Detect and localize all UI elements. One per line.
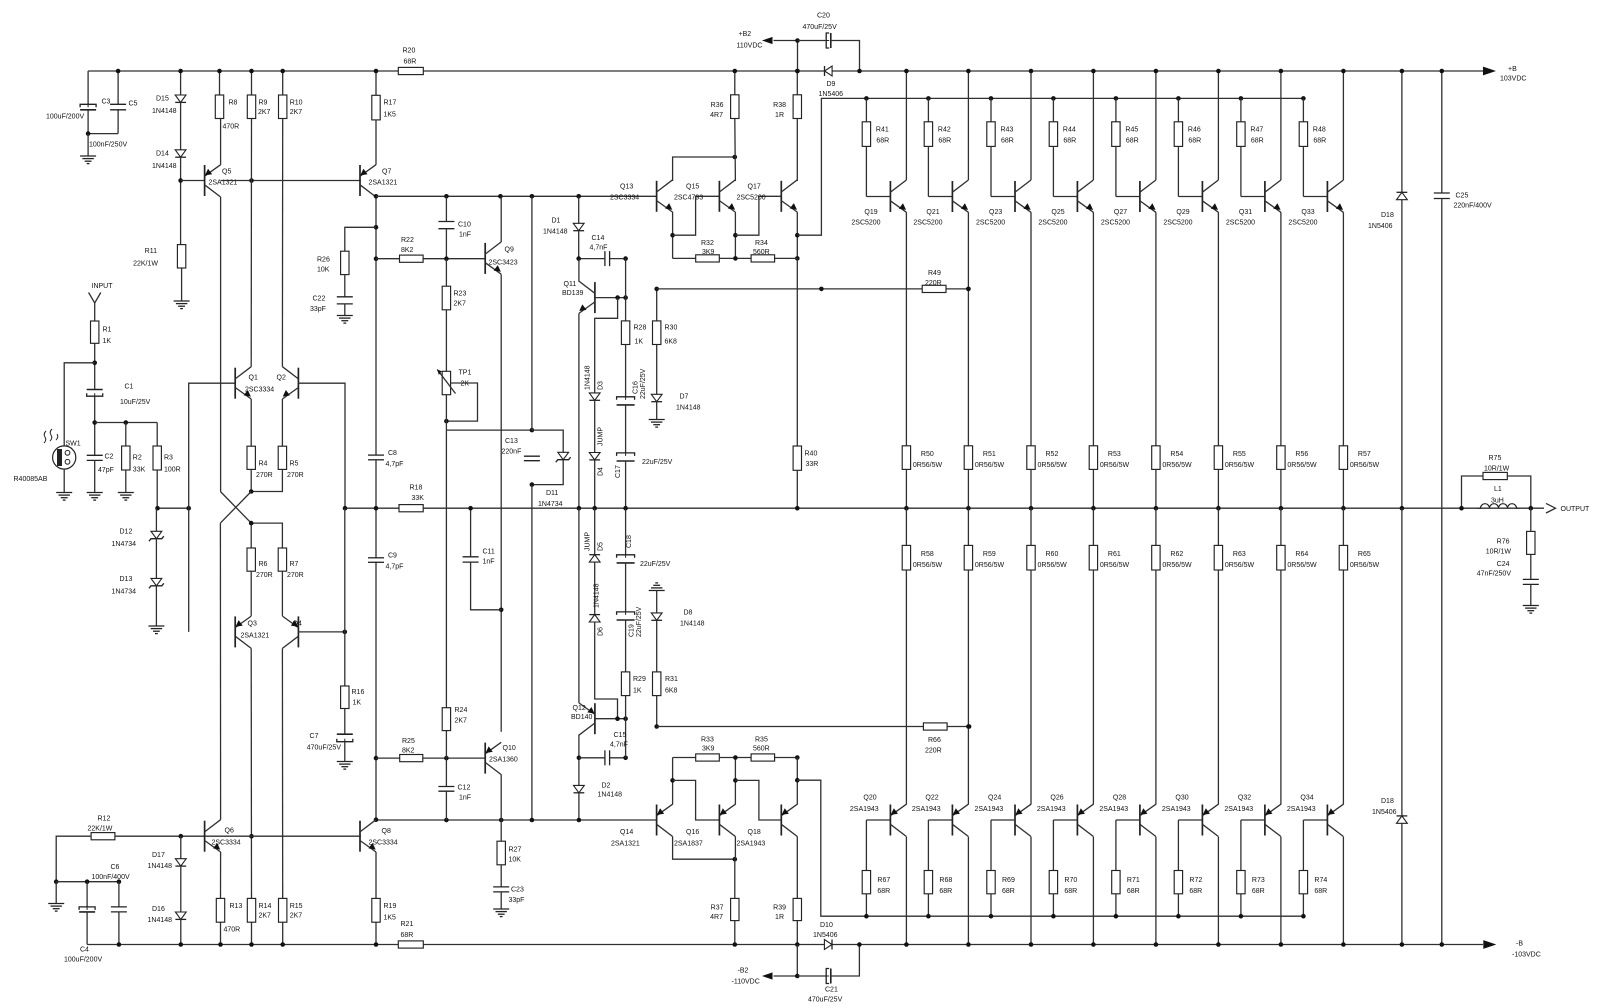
transistor Q23 2SC5200 (1014, 181, 1016, 212)
svg-text:2SC5200: 2SC5200 (976, 220, 1005, 227)
svg-text:22uF/25V: 22uF/25V (640, 561, 671, 568)
svg-text:R54: R54 (1170, 451, 1183, 458)
svg-text:R40: R40 (805, 451, 818, 458)
capacitor C15 4,7nF (606, 750, 610, 765)
transistor Q30 2SA1943 (1201, 805, 1203, 836)
resistor R24 2K7 (442, 708, 450, 731)
svg-text:R3: R3 (164, 455, 173, 462)
svg-text:22K/1W: 22K/1W (88, 826, 113, 833)
ground below D7 (656, 402, 658, 420)
svg-text:2SC5200: 2SC5200 (913, 220, 942, 227)
svg-text:270R: 270R (287, 572, 304, 579)
svg-text:C25: C25 (1456, 193, 1469, 200)
svg-text:TP1: TP1 (459, 370, 472, 377)
svg-text:6K8: 6K8 (665, 688, 678, 695)
transistor Q28 2SA1943 (1139, 805, 1141, 836)
svg-text:68R: 68R (1126, 138, 1139, 145)
svg-text:470uF/25V: 470uF/25V (307, 745, 342, 752)
resistor R10 2K7 (282, 71, 284, 95)
svg-text:R65: R65 (1358, 551, 1371, 558)
svg-text:Q26: Q26 (1050, 794, 1063, 801)
svg-text:1nF: 1nF (459, 795, 471, 802)
svg-text:2SC3423: 2SC3423 (489, 260, 518, 267)
svg-text:68R: 68R (404, 59, 417, 66)
wire Q27 collector (1155, 71, 1157, 180)
svg-text:C17: C17 (615, 465, 622, 478)
svg-text:68R: 68R (401, 932, 414, 939)
wire Q31 emitter to R56 (1280, 212, 1282, 445)
svg-text:68R: 68R (876, 138, 889, 145)
svg-text:2K7: 2K7 (455, 718, 468, 725)
svg-text:C13: C13 (505, 438, 518, 445)
svg-text:R70: R70 (1064, 877, 1077, 884)
svg-text:R15: R15 (290, 903, 303, 910)
wire D2 to lower driver base wire (578, 793, 580, 820)
diode D18 1N5406 top (1401, 71, 1403, 192)
resistor R57 0R56/5W (1339, 446, 1347, 470)
svg-text:C18: C18 (626, 535, 633, 548)
svg-text:R30: R30 (665, 325, 678, 332)
diode D18 1N5406 bottom (1401, 508, 1403, 816)
resistor R50 0R56/5W (902, 446, 910, 470)
svg-text:Q18: Q18 (748, 829, 761, 836)
svg-text:OUTPUT: OUTPUT (1561, 506, 1591, 513)
capacitor C2 47pF (87, 456, 103, 460)
wire R36 to Q15 collector (734, 119, 737, 182)
svg-text:Q12: Q12 (573, 705, 586, 712)
wire Q17 emitter node (796, 212, 798, 258)
svg-text:68R: 68R (939, 888, 952, 895)
resistor R49 220R (922, 285, 946, 292)
svg-text:R53: R53 (1108, 451, 1121, 458)
svg-text:R22: R22 (401, 237, 414, 244)
svg-text:4,7pF: 4,7pF (386, 564, 404, 571)
svg-text:Q13: Q13 (620, 184, 633, 191)
OUTPUT arrow (1546, 503, 1556, 513)
svg-text:1N5406: 1N5406 (1368, 223, 1393, 230)
resistor R53 0R56/5W (1089, 446, 1097, 470)
transistor Q34 2SA1943 (1326, 805, 1328, 836)
svg-text:R71: R71 (1127, 877, 1140, 884)
resistor R18 33K (399, 505, 423, 512)
diode D16 1N4148 (180, 866, 182, 912)
svg-text:1K: 1K (635, 339, 644, 346)
ground below C7 (344, 742, 346, 762)
transistor Q12 BD140 (594, 703, 596, 734)
capacitor C22 33pF (337, 297, 353, 303)
svg-text:R46: R46 (1188, 127, 1201, 134)
wire Q25 collector (1092, 71, 1094, 180)
wire Q6/Q8 base wire (115, 835, 361, 837)
svg-text:Q23: Q23 (989, 209, 1002, 216)
svg-text:1N4148: 1N4148 (598, 792, 623, 799)
svg-text:Q22: Q22 (925, 794, 938, 801)
svg-text:1N4148: 1N4148 (543, 229, 568, 236)
transistor Q5 2SA1321 (204, 165, 206, 196)
wire C15 row (579, 757, 605, 759)
svg-text:Q32: Q32 (1238, 794, 1251, 801)
resistor R25 8K2 (400, 755, 423, 762)
svg-text:68R: 68R (1188, 138, 1201, 145)
power +B2 110VDC arrow (762, 37, 773, 44)
svg-text:2K7: 2K7 (258, 109, 271, 116)
svg-text:R7: R7 (290, 561, 299, 568)
svg-text:Q1: Q1 (249, 375, 258, 382)
svg-text:R43: R43 (1001, 127, 1014, 134)
wire R26 to C22 (344, 275, 346, 297)
wire R9 to Q1 collector (250, 119, 252, 367)
svg-text:68R: 68R (1313, 138, 1326, 145)
resistor R5 270R (278, 446, 286, 469)
svg-text:D15: D15 (156, 96, 169, 103)
svg-text:R57: R57 (1358, 451, 1371, 458)
svg-text:R52: R52 (1046, 451, 1059, 458)
wire D8 to R31 (656, 620, 658, 672)
svg-text:R18: R18 (410, 485, 423, 492)
wire R66 row (657, 726, 969, 728)
resistor R19 1K5 (375, 852, 377, 898)
svg-text:1N4148: 1N4148 (148, 917, 173, 924)
svg-text:C11: C11 (483, 549, 495, 556)
svg-text:C1: C1 (125, 384, 134, 391)
svg-text:103VDC: 103VDC (1500, 75, 1526, 82)
svg-text:R45: R45 (1125, 127, 1138, 134)
ground below C2 (94, 460, 96, 492)
svg-text:INPUT: INPUT (92, 283, 114, 290)
svg-text:2SA1943: 2SA1943 (737, 841, 766, 848)
wire Q13 collector jog to R36 column (673, 157, 735, 181)
svg-text:4R7: 4R7 (710, 112, 723, 119)
wire D6 to Q12 base jog (595, 622, 618, 719)
svg-text:0R56/5W: 0R56/5W (1162, 462, 1192, 469)
svg-text:R11: R11 (145, 248, 157, 255)
svg-text:10R/1W: 10R/1W (1484, 466, 1510, 473)
wire Q24 collector (1030, 837, 1032, 945)
resistor R9 2K7 (251, 71, 253, 95)
wire C18 to C19 (625, 563, 627, 612)
svg-text:C7: C7 (310, 733, 319, 740)
svg-text:68R: 68R (1001, 138, 1014, 145)
svg-text:220nF: 220nF (502, 449, 522, 456)
wire R1 to C1 node (94, 343, 96, 389)
wire D4 to mid rail (594, 460, 596, 508)
transistor Q3 2SA1321 (234, 616, 236, 647)
resistor R27 10K (500, 820, 502, 841)
svg-text:2SC4793: 2SC4793 (674, 195, 703, 202)
svg-text:2K7: 2K7 (290, 913, 303, 920)
svg-text:1N4148: 1N4148 (676, 405, 701, 412)
resistor R64 0R56/5W (1280, 508, 1282, 545)
svg-text:22uF/25V: 22uF/25V (640, 368, 647, 399)
svg-text:1N5406: 1N5406 (819, 91, 844, 98)
svg-text:2SA1321: 2SA1321 (611, 841, 640, 848)
svg-text:22uF/25V: 22uF/25V (636, 606, 643, 637)
svg-text:R48: R48 (1313, 127, 1326, 134)
svg-text:C8: C8 (388, 450, 397, 457)
svg-text:SW1: SW1 (66, 441, 81, 448)
transistor Q24 2SA1943 (1014, 805, 1016, 836)
svg-text:22uF/25V: 22uF/25V (642, 459, 673, 466)
svg-text:R12: R12 (98, 816, 111, 823)
resistor R55 0R56/5W (1214, 446, 1222, 470)
svg-text:L1: L1 (1494, 486, 1502, 493)
resistor R32 3K9 (696, 255, 720, 262)
resistor R7 270R (278, 548, 286, 571)
svg-text:68R: 68R (1127, 888, 1140, 895)
resistor R28 1K (621, 321, 629, 345)
svg-text:-103VDC: -103VDC (1512, 951, 1541, 958)
svg-text:0R56/5W: 0R56/5W (1038, 562, 1068, 569)
svg-text:R68: R68 (939, 877, 952, 884)
wire Q11 emitter to mid rail (578, 314, 580, 509)
svg-text:1nF: 1nF (459, 232, 471, 239)
svg-text:470uF/25V: 470uF/25V (808, 997, 843, 1004)
wire R24 column (445, 708, 447, 758)
wire Q27 emitter to R54 (1155, 212, 1157, 445)
svg-text:270R: 270R (256, 572, 273, 579)
svg-text:22K/1W: 22K/1W (133, 261, 158, 268)
wire Q1 emitter to R4 (250, 399, 252, 446)
transistor Q20 2SA1943 (889, 805, 891, 836)
capacitor C14 4,7nF (606, 251, 610, 266)
svg-text:68R: 68R (1314, 888, 1327, 895)
capacitor C18 22uF/25V (617, 555, 635, 562)
svg-text:1N4734: 1N4734 (112, 541, 137, 548)
wire Q31 collector (1280, 71, 1282, 180)
resistor R3 100R (156, 423, 158, 447)
svg-text:3K9: 3K9 (702, 746, 715, 753)
svg-text:C21: C21 (825, 987, 838, 994)
svg-text:R35: R35 (755, 737, 768, 744)
svg-text:Q33: Q33 (1301, 209, 1314, 216)
resistor R16 1K (341, 686, 349, 709)
svg-text:R67: R67 (877, 877, 890, 884)
wire R32/R34 row (673, 257, 798, 259)
ground above D8 (649, 590, 665, 592)
svg-text:R56: R56 (1295, 451, 1308, 458)
wire +B2 to rail (797, 41, 799, 72)
svg-text:1N5406: 1N5406 (1372, 809, 1397, 816)
wire R38 to Q17 collector (796, 119, 798, 182)
capacitor C7 470uF/25V (337, 735, 353, 741)
svg-text:D8: D8 (684, 610, 693, 617)
power -B -103VDC arrow (1483, 940, 1496, 949)
svg-text:-B: -B (1516, 940, 1523, 947)
resistor R12 22K/1W (91, 833, 115, 840)
wire Q25 emitter to R53 (1092, 212, 1094, 445)
diode D9 1N5406 (824, 66, 826, 76)
wire R16 to C7 (344, 709, 346, 735)
svg-text:4,7nF: 4,7nF (610, 742, 628, 749)
transistor Q6 2SC3334 (204, 821, 206, 852)
svg-text:Q14: Q14 (620, 829, 633, 836)
wire Q12 collector to D2 (578, 735, 580, 786)
svg-text:3K9: 3K9 (702, 249, 715, 256)
power -B2 -110VDC arrow (762, 972, 773, 979)
svg-text:R49: R49 (928, 270, 941, 277)
capacitor C13 220nF (524, 457, 540, 460)
svg-text:C4: C4 (80, 947, 89, 954)
svg-text:R31: R31 (665, 676, 678, 683)
resistor R44 68R (1051, 96, 1056, 101)
resistor R56 0R56/5W (1277, 446, 1285, 470)
capacitor C16 22uF/25V (617, 397, 635, 404)
svg-text:D13: D13 (120, 576, 133, 583)
svg-text:1R: 1R (775, 112, 784, 119)
svg-text:100uF/200V: 100uF/200V (46, 114, 84, 121)
wire Q18 base jog (735, 780, 781, 820)
svg-text:R16: R16 (352, 689, 365, 696)
capacitor C17 22uF/25V (617, 454, 635, 461)
resistor R42 68R (926, 96, 931, 101)
wire output mid rail (345, 507, 1544, 509)
svg-text:-110VDC: -110VDC (732, 979, 760, 986)
svg-text:R1: R1 (103, 327, 112, 334)
svg-text:D18: D18 (1381, 212, 1394, 219)
capacitor C9 4,7pF (368, 558, 384, 561)
svg-text:2SA1321: 2SA1321 (369, 180, 398, 187)
svg-text:0R56/5W: 0R56/5W (1100, 562, 1130, 569)
svg-text:R27: R27 (509, 847, 522, 854)
wire R10 to Q2 collector (281, 119, 283, 367)
wire Q4 base to C9 column (298, 631, 344, 633)
svg-text:Q16: Q16 (686, 829, 699, 836)
svg-text:R5: R5 (290, 461, 299, 468)
svg-text:R32: R32 (701, 240, 714, 247)
svg-text:C24: C24 (1497, 561, 1510, 568)
svg-text:R40085AB: R40085AB (14, 476, 48, 483)
svg-text:2SC3334: 2SC3334 (245, 387, 274, 394)
svg-text:560R: 560R (753, 746, 770, 753)
svg-text:D5: D5 (598, 542, 605, 551)
resistor R31 6K8 (653, 672, 661, 696)
resistor R51 0R56/5W (964, 446, 972, 470)
capacitor C10 1nF (445, 196, 447, 221)
wire R40 to mid rail (796, 470, 798, 508)
capacitor C25 220nF/400V (1441, 71, 1443, 193)
wire Q14 collector jog to R37 column (673, 837, 735, 860)
transistor Q4 2SA1321 (297, 616, 299, 647)
svg-text:R39: R39 (773, 905, 786, 912)
svg-text:R61: R61 (1108, 551, 1121, 558)
svg-text:1N4148: 1N4148 (148, 863, 173, 870)
svg-text:+B2: +B2 (739, 31, 752, 38)
resistor R69 68R (991, 819, 1015, 821)
wire bottom -B rail (87, 944, 1483, 946)
wire Q11 base jog to D3 (595, 297, 626, 299)
svg-text:R24: R24 (455, 707, 468, 714)
svg-text:Q11: Q11 (564, 281, 577, 288)
svg-text:R73: R73 (1252, 877, 1265, 884)
svg-text:68R: 68R (877, 888, 890, 895)
capacitor C6 100nF/400V (118, 882, 120, 907)
capacitor C11 1nF (470, 508, 472, 557)
wire R40 column upper (796, 258, 798, 446)
svg-text:68R: 68R (1251, 138, 1264, 145)
wire Q30 collector (1217, 837, 1219, 945)
svg-text:Q5: Q5 (222, 169, 231, 176)
wire D3 to D4 (594, 400, 596, 452)
resistor R41 68R (864, 96, 869, 101)
svg-text:2SA1943: 2SA1943 (1162, 806, 1191, 813)
resistor R21 68R (398, 941, 423, 948)
wire Q21 emitter to R51 (967, 212, 969, 445)
svg-text:R14: R14 (259, 903, 272, 910)
wire D5 to D6 (594, 562, 596, 615)
wire Q12 emitter to mid rail (578, 508, 580, 703)
wire C14 row (579, 258, 605, 260)
svg-text:R37: R37 (711, 905, 724, 912)
svg-text:Q15: Q15 (686, 184, 699, 191)
wire R4/R5 junction (250, 469, 252, 491)
wire Q21 collector (967, 71, 969, 180)
svg-text:2SA1360: 2SA1360 (489, 757, 518, 764)
svg-text:0R56/5W: 0R56/5W (1225, 462, 1255, 469)
svg-text:Q28: Q28 (1113, 794, 1126, 801)
svg-text:2K7: 2K7 (290, 109, 303, 116)
wire C16 to C17 (625, 405, 627, 453)
ground below R12 wire (55, 882, 57, 904)
resistor R17 1K5 (375, 71, 377, 95)
resistor R71 68R (1116, 819, 1140, 821)
resistor R54 0R56/5W (1152, 446, 1160, 470)
resistor R59 0R56/5W (967, 508, 969, 545)
svg-text:D12: D12 (120, 529, 133, 536)
resistor R52 0R56/5W (1027, 446, 1035, 470)
wire R30 column (656, 289, 658, 321)
svg-text:C10: C10 (458, 222, 471, 229)
wire to SW1 (64, 363, 95, 446)
wire Q32 collector (1280, 837, 1282, 945)
capacitor C5 (117, 71, 119, 134)
svg-text:2SC5200: 2SC5200 (1101, 220, 1130, 227)
svg-text:0R56/5W: 0R56/5W (1225, 562, 1255, 569)
transistor Q26 2SA1943 (1076, 805, 1078, 836)
power +B 103VDC arrow (1483, 67, 1496, 76)
resistor R34 560R (751, 255, 775, 262)
svg-text:2K7: 2K7 (454, 301, 467, 308)
inductor L1 3uH (1478, 504, 1520, 509)
svg-text:R41: R41 (876, 127, 889, 134)
ground below C23 (500, 892, 502, 909)
wire D14 to R11 and Q5 base (180, 157, 182, 244)
transistor Q31 2SC5200 (1264, 181, 1266, 212)
svg-text:Q27: Q27 (1114, 209, 1127, 216)
resistor R62 0R56/5W (1155, 508, 1157, 545)
resistor R40 33R (793, 446, 801, 470)
svg-text:0R56/5W: 0R56/5W (1350, 462, 1380, 469)
svg-text:Q19: Q19 (864, 209, 877, 216)
wire R29 to Q12 base node (625, 696, 627, 719)
svg-text:R10: R10 (290, 100, 303, 107)
resistor R33 3K9 (696, 754, 720, 761)
ground below SW1 (63, 469, 65, 492)
transistor Q27 2SC5200 (1139, 181, 1141, 212)
resistor R6 270R (247, 548, 255, 571)
wire Q1/Q3 base column (189, 383, 236, 632)
svg-text:JUMP: JUMP (585, 532, 592, 551)
svg-text:R51: R51 (983, 451, 996, 458)
wire Q28 collector (1155, 837, 1157, 945)
wire Q9 emitter to Q10 emitter (500, 274, 502, 731)
diode D17 1N4148 (180, 836, 182, 859)
svg-text:0R56/5W: 0R56/5W (1287, 462, 1317, 469)
svg-text:D18: D18 (1381, 798, 1394, 805)
svg-text:110VDC: 110VDC (737, 43, 763, 50)
wire -B2 to rail (796, 945, 798, 977)
svg-text:R55: R55 (1233, 451, 1246, 458)
svg-text:R75: R75 (1489, 455, 1502, 462)
